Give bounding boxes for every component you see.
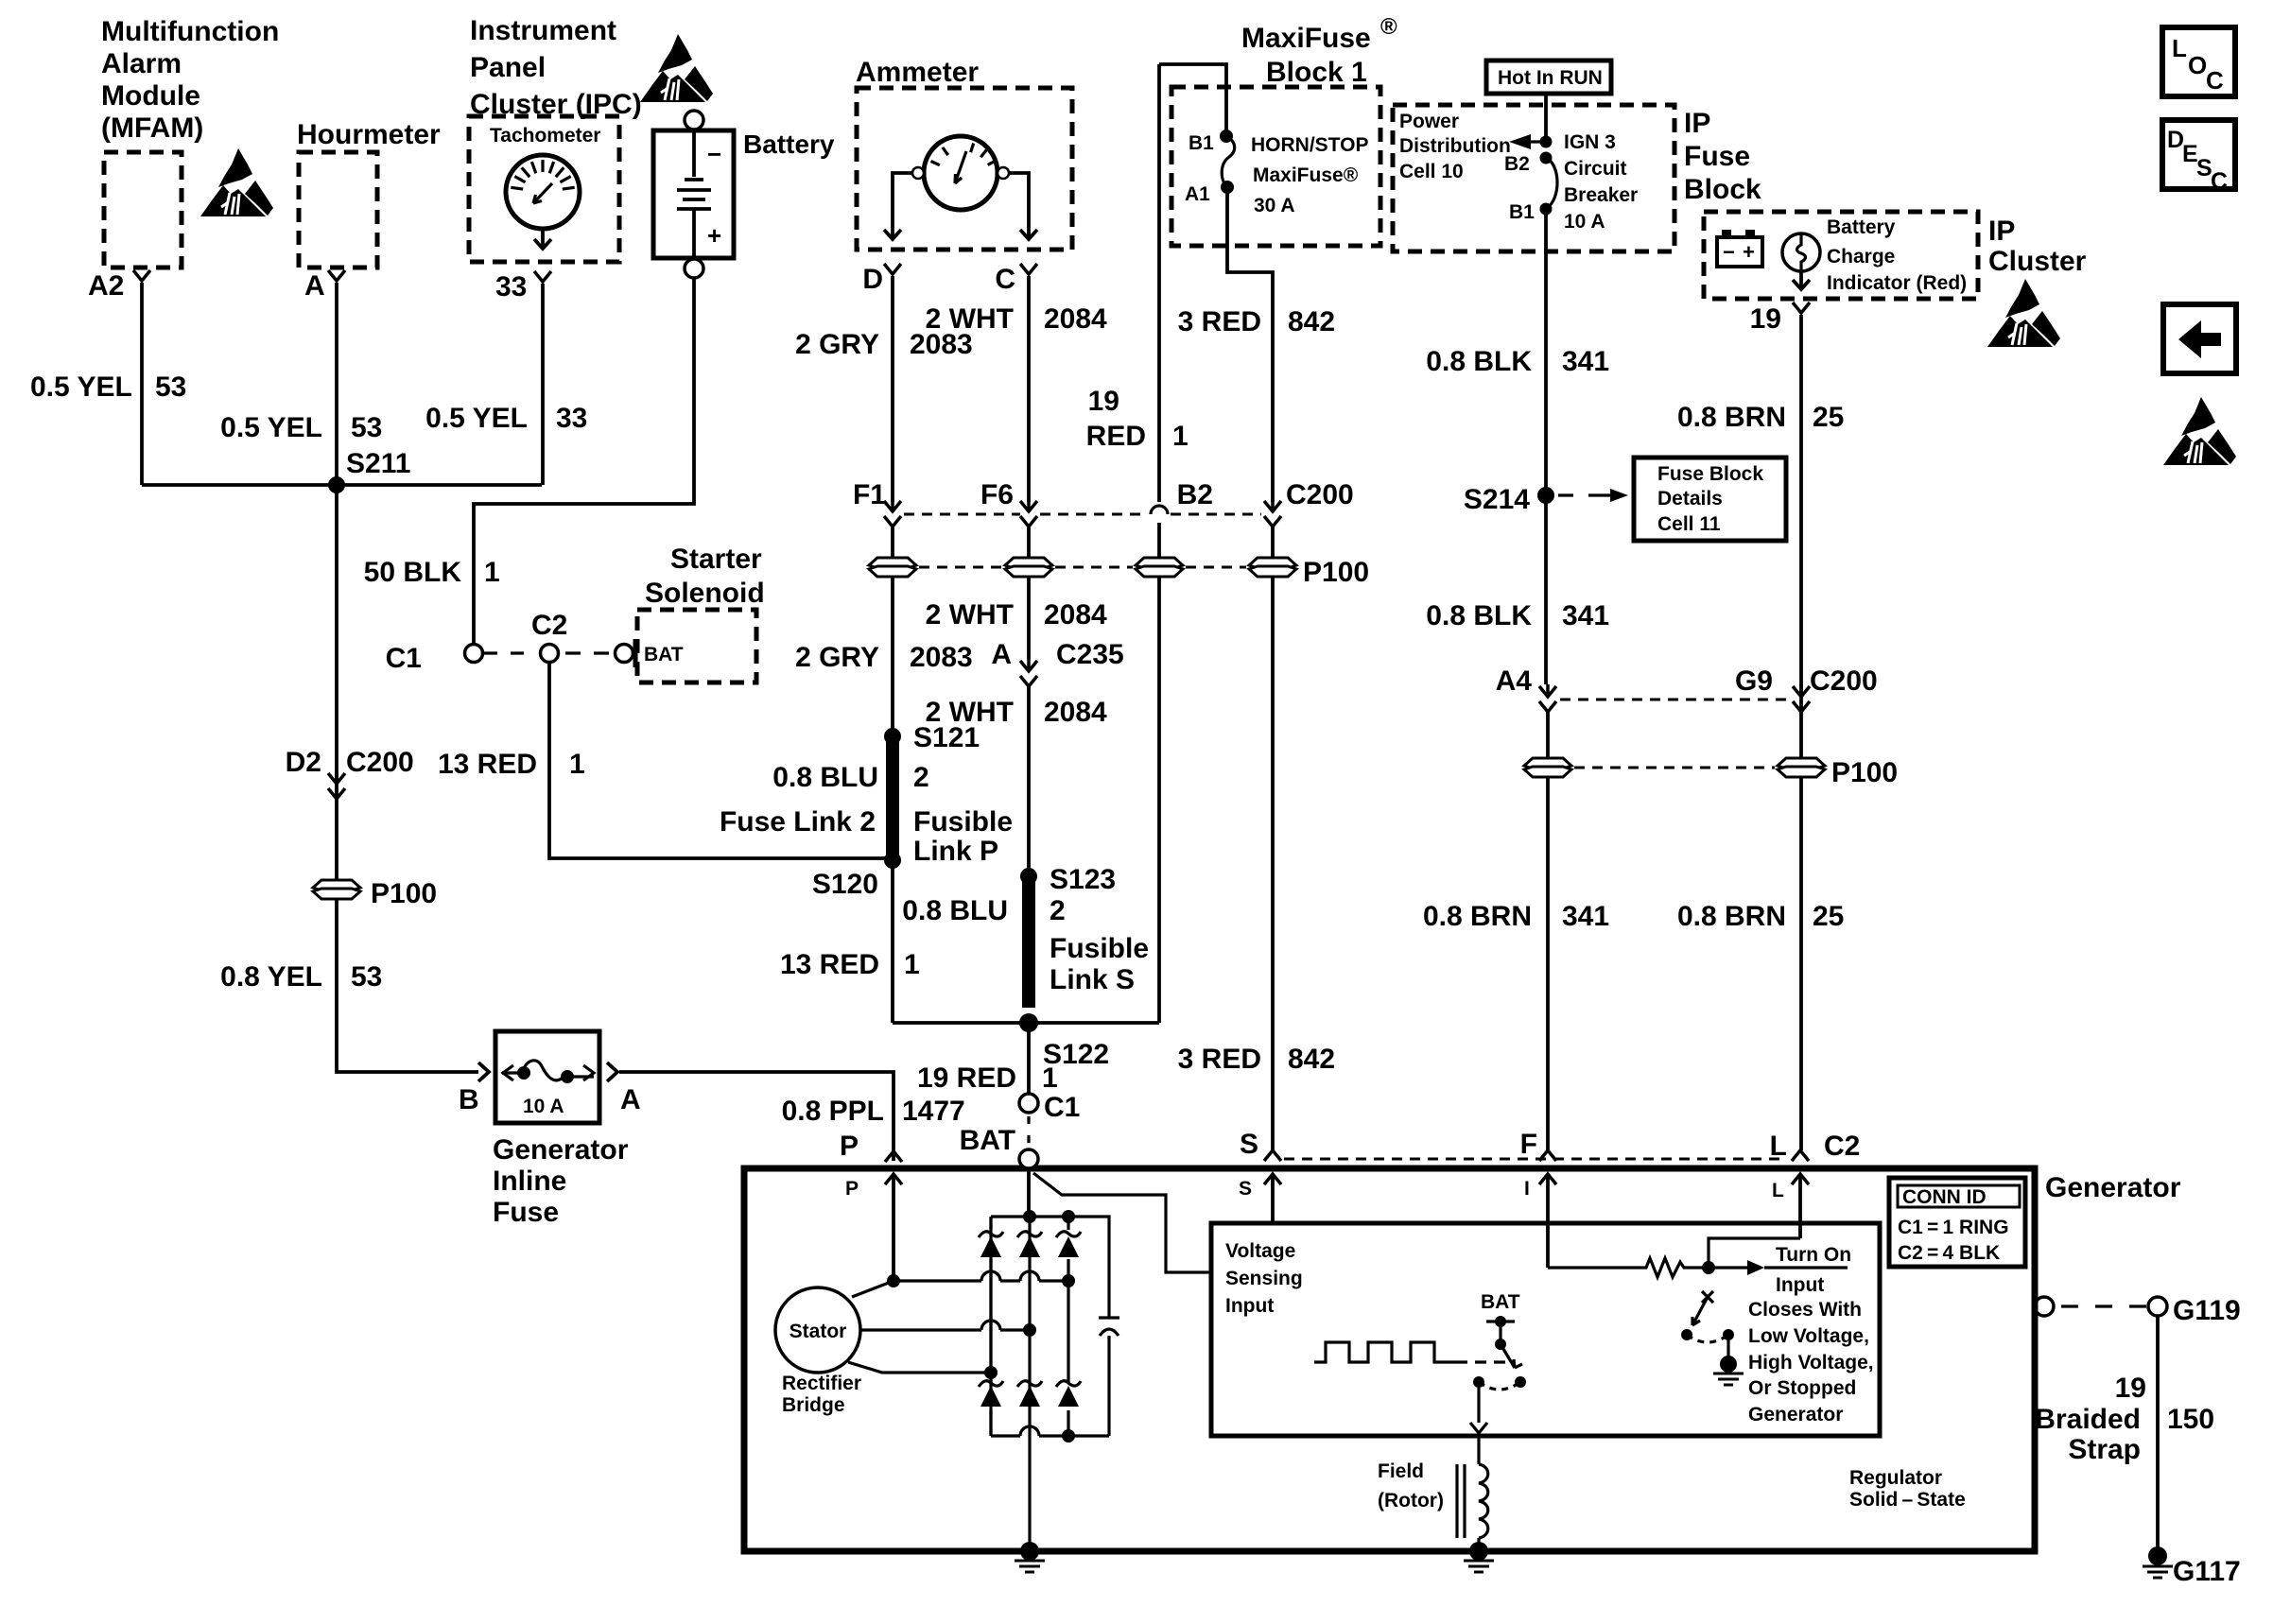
svg-text:Fusible: Fusible (913, 806, 1013, 838)
S123 splice (1020, 868, 1037, 885)
svg-text:Module: Module (101, 80, 200, 112)
wire (931, 144, 997, 165)
diode D2 bar (1017, 1232, 1042, 1237)
splice S214 junction dot (1537, 487, 1554, 504)
svg-text:Hourmeter: Hourmeter (297, 119, 441, 150)
svg-text:C1: C1 (1044, 1092, 1080, 1123)
svg-text:Voltage: Voltage (1225, 1240, 1295, 1262)
svg-text:P100: P100 (371, 878, 437, 909)
svg-text:Or Stopped: Or Stopped (1748, 1377, 1856, 1399)
terminal arrow (1539, 1150, 1556, 1161)
diode D3 bar (1056, 1232, 1081, 1237)
power feed arrowhead (1509, 134, 1531, 149)
svg-text:Cluster: Cluster (1988, 246, 2087, 277)
terminal circle (998, 167, 1009, 179)
svg-text:341: 341 (1562, 901, 1609, 932)
svg-text:25: 25 (1813, 901, 1844, 932)
svg-text:2084: 2084 (1044, 599, 1107, 631)
svg-text:19 RED: 19 RED (917, 1063, 1016, 1094)
fuse terminal A1 dot (1221, 181, 1234, 194)
svg-text:Solenoid: Solenoid (645, 578, 765, 609)
svg-text:C: C (995, 264, 1015, 295)
field ground dot (1469, 1542, 1488, 1561)
connector crossing arrow (328, 771, 345, 799)
svg-text:Link P: Link P (913, 836, 998, 867)
turn-on switch arm with arrow (1692, 1297, 1708, 1325)
svg-text:Charge: Charge (1827, 246, 1895, 268)
field coil to ground (1477, 1538, 1480, 1551)
diode D1 bar (979, 1232, 1003, 1237)
svg-text:30 A: 30 A (1254, 195, 1295, 216)
terminal circle (506, 155, 580, 229)
svg-text:Input: Input (1776, 1274, 1824, 1296)
svg-text:10 A: 10 A (1564, 211, 1605, 233)
IPC box (469, 116, 619, 262)
diode D5 bar (1017, 1381, 1042, 1387)
breaker terminal B2 dot (1540, 152, 1553, 164)
svg-text:BAT: BAT (644, 644, 684, 665)
diode D1 triangle (980, 1236, 1001, 1257)
svg-text:HORN/STOP: HORN/STOP (1251, 134, 1368, 156)
inline connector P100 symbol (1778, 758, 1825, 777)
field rotor coil (1479, 1464, 1488, 1538)
stator phase wire C (848, 1362, 987, 1373)
D wire down (891, 276, 894, 502)
svg-text:A2: A2 (88, 270, 124, 302)
svg-text:B2: B2 (1504, 153, 1530, 175)
stator phase wire A diagonal (852, 1281, 894, 1297)
diode D2 triangle (1019, 1236, 1040, 1257)
terminal arrow (1264, 1150, 1281, 1161)
svg-text:P: P (840, 1131, 859, 1162)
C1 ring terminal (1019, 1094, 1038, 1113)
diode D6 bar (1056, 1381, 1081, 1387)
charge indicator bulb (1782, 233, 1820, 271)
DESC box (2162, 120, 2235, 189)
svg-text:3 RED: 3 RED (1178, 306, 1261, 337)
svg-text:P100: P100 (1303, 557, 1369, 588)
svg-text:Rectifier: Rectifier (782, 1373, 861, 1394)
terminal arrow (1792, 1150, 1809, 1161)
svg-text:3 RED: 3 RED (1178, 1044, 1261, 1075)
wire (533, 183, 552, 203)
inline fuse terminal dot (561, 1070, 574, 1083)
dashed component box (1393, 105, 1674, 251)
svg-text:IGN 3: IGN 3 (1564, 131, 1616, 153)
svg-text:A: A (991, 639, 1012, 670)
rectifier ground dot (1020, 1542, 1039, 1561)
wire S211 horizontal bus (142, 483, 542, 487)
svg-text:D2: D2 (286, 747, 321, 778)
connector crossing arrow (1539, 684, 1556, 712)
turn-on ground contact dot (1723, 1329, 1734, 1340)
wire tach down (541, 284, 545, 485)
chevron A side (607, 1063, 617, 1081)
svg-text:−: − (1723, 240, 1735, 264)
ground (1464, 1561, 1494, 1572)
dashed component box (857, 88, 1072, 250)
phase B hop and connect (981, 1321, 1030, 1330)
svg-text:2: 2 (1050, 895, 1066, 926)
svg-text:Block 1: Block 1 (1266, 57, 1367, 88)
wire 2 WHT 2084 mid (1027, 577, 1031, 659)
svg-text:C200: C200 (346, 747, 414, 778)
svg-text:0.8 BLU: 0.8 BLU (772, 762, 878, 793)
connector crossing arrow (1793, 684, 1810, 712)
wire to field with arrow (1470, 1388, 1487, 1433)
inline fuse arrow right (583, 1065, 594, 1080)
svg-text:Regulator: Regulator (1849, 1467, 1942, 1489)
wire chevron (1793, 302, 1810, 313)
ESD symbol near IPC (640, 34, 713, 102)
splice S211 junction dot (328, 476, 345, 493)
fuse element (502, 1061, 594, 1080)
svg-text:Generator: Generator (2045, 1172, 2181, 1203)
square wave dashes (1475, 1360, 1505, 1363)
svg-text:C: C (2206, 66, 2224, 95)
dashed wire C2 to BAT (565, 651, 609, 654)
svg-text:Inline: Inline (493, 1166, 566, 1197)
wire 19 RED 1 vertical (1157, 64, 1161, 502)
ground (1713, 1373, 1744, 1385)
wire 13 RED 1 to S122 bus (891, 862, 894, 1023)
svg-text:C1 = 1 RING: C1 = 1 RING (1898, 1217, 2009, 1238)
svg-text:2: 2 (913, 762, 929, 793)
wire to regulator ground (1726, 1335, 1729, 1358)
svg-text:Panel: Panel (470, 52, 546, 83)
wire 2 WHT 2084 to S123 (1027, 686, 1031, 870)
terminal arrow (1264, 1174, 1281, 1184)
dashed connector line C200 (904, 513, 1261, 516)
svg-text:MaxiFuse®: MaxiFuse® (1253, 164, 1359, 186)
svg-text:Generator: Generator (493, 1134, 629, 1166)
Fuse Block Details box (1634, 458, 1786, 541)
turn-on input underline (1764, 1266, 1848, 1269)
svg-text:Fuse: Fuse (1684, 141, 1750, 172)
connector crossing arrow (1264, 499, 1281, 527)
wire 0.8 BRN 341 to F (1546, 777, 1550, 1150)
wire (955, 151, 966, 183)
BAT switch pivot dot (1495, 1339, 1506, 1350)
diode D4 bar (979, 1381, 1003, 1387)
fusible link P bar (886, 741, 899, 862)
connector crossing arrow (1020, 499, 1037, 527)
svg-text:Input: Input (1225, 1295, 1274, 1317)
terminal arrow (1792, 1174, 1809, 1184)
svg-text:L: L (2172, 34, 2187, 62)
svg-text:53: 53 (351, 412, 382, 443)
rectifier bridge frame (991, 1217, 1109, 1436)
svg-text:33: 33 (556, 403, 587, 434)
svg-text:CONN ID: CONN ID (1902, 1186, 1987, 1208)
box (1745, 230, 1755, 237)
bridge phase-C node dot (984, 1366, 998, 1379)
wire L internal (1798, 1174, 1802, 1238)
svg-text:Multifunction: Multifunction (101, 16, 279, 47)
phase entries with hop bumps (894, 1271, 1068, 1281)
svg-text:C1: C1 (386, 643, 422, 674)
A2 pin (133, 270, 150, 281)
svg-text:13 RED: 13 RED (780, 949, 879, 980)
svg-text:0.8 YEL: 0.8 YEL (220, 961, 322, 993)
svg-text:(MFAM): (MFAM) (101, 112, 203, 144)
inline connector P100 symbol (1249, 558, 1296, 577)
svg-text:Fuse Link 2: Fuse Link 2 (720, 806, 876, 838)
svg-text:C: C (2211, 168, 2228, 195)
svg-text:Battery: Battery (743, 130, 835, 159)
stator (775, 1287, 860, 1373)
turn-on switch (1702, 1291, 1713, 1303)
svg-text:2 WHT: 2 WHT (926, 303, 1014, 335)
diode D3 triangle (1058, 1236, 1079, 1257)
stator phase wire B (860, 1328, 981, 1331)
svg-text:Battery: Battery (1827, 216, 1896, 238)
svg-text:C200: C200 (1810, 665, 1878, 697)
wire B2 to P100 (1271, 527, 1275, 560)
svg-text:Closes With: Closes With (1748, 1299, 1862, 1321)
svg-text:I: I (1524, 1178, 1530, 1200)
battery icon (1717, 237, 1762, 267)
svg-text:Power: Power (1399, 111, 1459, 132)
dashed wire to G119 (2061, 1304, 2146, 1307)
svg-text:0.8 BRN: 0.8 BRN (1677, 901, 1786, 932)
wire I internal (1546, 1174, 1550, 1268)
S121 splice (884, 728, 901, 745)
wire 2 GRY 2083 lower (891, 577, 894, 730)
bridge node dot (1062, 1210, 1075, 1223)
wire Hot In RUN to breaker (1544, 94, 1548, 138)
svg-text:1: 1 (484, 557, 500, 588)
square wave (1314, 1342, 1467, 1362)
inline connector P100 symbol (1005, 558, 1052, 577)
svg-text:19: 19 (1750, 303, 1781, 335)
svg-text:Tachometer: Tachometer (490, 125, 600, 147)
diode D4 triangle (980, 1386, 1001, 1407)
tach output arrow (534, 229, 551, 249)
svg-text:G117: G117 (2173, 1556, 2241, 1587)
turn-on switch contact dot (1681, 1329, 1692, 1340)
svg-text:Cell 11: Cell 11 (1657, 513, 1721, 535)
svg-text:Ammeter: Ammeter (856, 57, 979, 88)
svg-text:Details: Details (1657, 488, 1723, 510)
svg-text:2084: 2084 (1044, 697, 1107, 728)
svg-text:F1: F1 (853, 479, 886, 510)
ESD symbol near IP cluster (1987, 279, 2060, 347)
terminal arrow (1539, 1174, 1556, 1184)
svg-text:+: + (1743, 240, 1755, 264)
BAT terminal starter solenoid (616, 645, 633, 663)
dashed component box (1171, 87, 1380, 246)
terminal circle (924, 136, 998, 210)
wire battery to C1 (474, 278, 694, 645)
svg-text:RED: RED (1086, 421, 1146, 452)
wire to field coil (1477, 1433, 1480, 1464)
splice S122 junction dot (1019, 1013, 1038, 1032)
bridge right column (1067, 1217, 1069, 1436)
svg-text:+: + (707, 221, 721, 250)
svg-text:Low Voltage,: Low Voltage, (1748, 1325, 1869, 1347)
svg-text:BAT: BAT (960, 1125, 1015, 1156)
inline fuse arrow left (503, 1065, 513, 1080)
battery cell plates (677, 132, 711, 256)
wires continue (891, 527, 894, 560)
fuse element (1220, 130, 1233, 143)
wire C2 down to fusible link P row (549, 662, 885, 858)
svg-text:C2: C2 (1824, 1131, 1860, 1162)
wire L to P100 (1799, 712, 1803, 760)
svg-text:1: 1 (569, 749, 585, 780)
P100 lens on hourmeter wire (313, 880, 360, 899)
svg-text:0.8 PPL: 0.8 PPL (782, 1096, 884, 1127)
wire 0.8 BLK 341 upper (1544, 215, 1548, 490)
svg-text:1: 1 (1172, 421, 1189, 452)
svg-text:50 BLK: 50 BLK (364, 557, 462, 588)
Hourmeter box (299, 152, 377, 268)
svg-text:P100: P100 (1831, 757, 1898, 788)
C200 line hop over wire (1151, 506, 1168, 514)
svg-text:0.5 YEL: 0.5 YEL (30, 371, 132, 403)
Starter Solenoid box (637, 610, 756, 682)
fusible link S bar (1022, 881, 1035, 1008)
turn-on junction dot (1702, 1261, 1715, 1274)
dashed connector line P100 (919, 566, 1246, 569)
svg-text:150: 150 (2167, 1404, 2214, 1435)
svg-text:A1: A1 (1185, 183, 1210, 205)
wire 0.8 BRN 25 upper (1799, 315, 1803, 502)
C wire down (1027, 276, 1031, 502)
svg-text:Breaker: Breaker (1564, 184, 1638, 206)
ground (1015, 1561, 1045, 1572)
svg-text:Circuit: Circuit (1564, 158, 1627, 180)
svg-text:Link S: Link S (1050, 964, 1135, 995)
svg-text:BAT: BAT (1481, 1291, 1520, 1313)
C2 dashed line (1284, 1158, 1787, 1161)
svg-text:MaxiFuse: MaxiFuse (1241, 23, 1371, 54)
LOC box (2162, 27, 2235, 96)
svg-text:1: 1 (904, 949, 920, 980)
svg-text:F6: F6 (980, 479, 1014, 510)
C2 connector (541, 645, 559, 663)
svg-text:1: 1 (1042, 1063, 1058, 1094)
box (495, 1031, 599, 1123)
dashed wire C1 to BAT node (1027, 1116, 1030, 1143)
wire MFAM down (140, 283, 144, 485)
svg-text:2 GRY: 2 GRY (795, 642, 879, 673)
ammeter wire to C with arrow (1009, 173, 1037, 239)
S214 dashed pointer (1558, 493, 1613, 496)
svg-text:19: 19 (1088, 386, 1119, 417)
battery terminal top (685, 111, 703, 130)
svg-text:Strap: Strap (2068, 1434, 2141, 1465)
svg-text:C2 = 4 BLK: C2 = 4 BLK (1898, 1242, 2000, 1264)
dashed wire C1 to C2 (484, 651, 524, 654)
breaker terminal B1 dot (1540, 203, 1553, 216)
svg-text:Generator: Generator (1748, 1404, 1843, 1425)
svg-text:S214: S214 (1464, 484, 1530, 515)
BAT switch arm with arrow (1501, 1344, 1522, 1368)
wire 3 RED 842 from fuse (1227, 187, 1273, 502)
MFAM box (104, 152, 182, 268)
svg-text:33: 33 (495, 271, 527, 302)
svg-text:P: P (845, 1178, 859, 1200)
svg-text:Alarm: Alarm (101, 48, 182, 79)
ESD symbol near MFAM (200, 148, 273, 216)
svg-text:2 WHT: 2 WHT (926, 599, 1014, 631)
svg-text:C200: C200 (1286, 479, 1354, 510)
battery box (653, 130, 734, 258)
svg-text:Fuse Block: Fuse Block (1657, 463, 1763, 485)
svg-text:B1: B1 (1189, 132, 1214, 154)
bridge left column (989, 1217, 992, 1436)
svg-text:0.8 BLU: 0.8 BLU (902, 895, 1008, 926)
BAT switch open contact dot (1515, 1376, 1526, 1388)
svg-text:2 GRY: 2 GRY (795, 329, 879, 360)
svg-text:B2: B2 (1177, 479, 1213, 510)
svg-text:Braided: Braided (2035, 1404, 2141, 1435)
svg-text:Distribution: Distribution (1399, 135, 1511, 157)
svg-text:Stator: Stator (789, 1321, 847, 1342)
svg-text:L: L (1772, 1180, 1784, 1201)
indicator filament squiggle (1797, 233, 1806, 271)
svg-text:C235: C235 (1056, 639, 1124, 670)
svg-text:Cell 10: Cell 10 (1399, 161, 1464, 182)
svg-text:53: 53 (155, 371, 186, 403)
terminal circle G119 (2148, 1297, 2167, 1316)
svg-text:Field: Field (1378, 1460, 1424, 1482)
svg-text:0.5 YEL: 0.5 YEL (425, 403, 528, 434)
wire (511, 160, 574, 189)
wire 0.8 BLK 341 lower (1544, 495, 1548, 684)
svg-text:IP: IP (1684, 108, 1710, 139)
svg-text:B1: B1 (1509, 201, 1535, 223)
svg-text:0.8 BRN: 0.8 BRN (1677, 402, 1786, 433)
svg-text:Fuse: Fuse (493, 1197, 559, 1228)
BAT switch stem (1499, 1322, 1501, 1344)
wire F to P100 (1546, 712, 1550, 760)
svg-text:25: 25 (1813, 402, 1844, 433)
terminal circle (912, 167, 924, 179)
svg-text:G119: G119 (2173, 1295, 2241, 1326)
wire 3 RED 842 lower (1271, 577, 1275, 1150)
center column through bridge (1028, 1217, 1031, 1426)
svg-text:S211: S211 (346, 448, 410, 479)
power feed arrow line (1518, 140, 1546, 143)
svg-text:®: ® (1380, 14, 1397, 40)
ESD symbol right (2163, 397, 2236, 465)
ground (2143, 1566, 2173, 1578)
svg-text:−: − (707, 140, 721, 168)
svg-text:S: S (1240, 1129, 1258, 1160)
svg-text:A4: A4 (1496, 665, 1533, 697)
svg-text:F: F (1520, 1129, 1537, 1160)
wire BAT to rectifier (1027, 1168, 1031, 1217)
svg-text:A: A (620, 1084, 641, 1115)
svg-text:(Rotor): (Rotor) (1378, 1490, 1444, 1512)
P100 row (1524, 758, 1571, 777)
svg-text:Hot In RUN: Hot In RUN (1498, 67, 1603, 89)
wire 19 RED 1 to C1 ring (1027, 1025, 1031, 1093)
S120 splice (884, 852, 901, 869)
BAT switch dashed throw arc (1479, 1382, 1520, 1390)
wire C to P100 (1027, 527, 1031, 560)
svg-text:A: A (304, 270, 325, 302)
turn-on arrowhead (1747, 1260, 1764, 1275)
svg-text:B: B (459, 1084, 479, 1115)
diodes: curve bar + triangle (top row) (979, 1232, 1081, 1407)
svg-text:Sensing: Sensing (1225, 1268, 1303, 1289)
svg-text:L: L (1770, 1131, 1787, 1162)
back arrow glyph (2178, 320, 2221, 358)
